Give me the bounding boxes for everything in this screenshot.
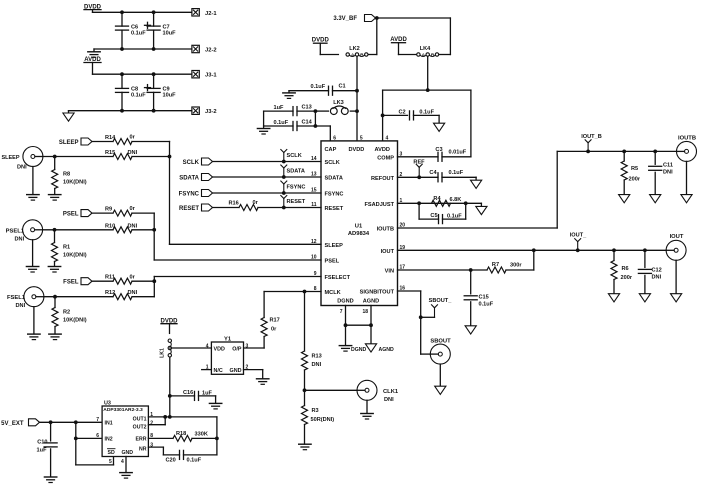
svg-text:C11: C11 — [663, 163, 673, 169]
ground triangle (C15) — [465, 326, 476, 334]
resistor R11 0r — [92, 274, 156, 284]
net tag SDATA input — [179, 174, 212, 182]
svg-text:0r: 0r — [130, 274, 136, 280]
wire RESET right — [258, 206, 321, 210]
svg-text:6: 6 — [96, 433, 99, 439]
ground triangle (C4) — [471, 180, 482, 188]
resistor R16 0r — [229, 200, 259, 210]
wire LK1 middle to Y1 VDD — [169, 347, 171, 349]
test point REF — [413, 159, 425, 179]
svg-text:1uF: 1uF — [37, 447, 48, 453]
svg-text:LK4: LK4 — [420, 46, 431, 52]
svg-text:R15: R15 — [105, 150, 115, 156]
pin 14 SCLK — [311, 156, 340, 166]
resistor R6 200r (IOUT load) — [611, 250, 633, 293]
net tag FSEL input — [63, 278, 92, 286]
capacitor C8 0.1uF — [116, 74, 147, 111]
ground triangle (R6) — [608, 294, 619, 302]
pin 9 FSELECT — [314, 271, 351, 281]
svg-text:DNI: DNI — [17, 165, 27, 171]
svg-text:2: 2 — [150, 420, 153, 426]
svg-text:C14: C14 — [302, 120, 313, 126]
wire Y1 N/C pin 1 stub — [202, 369, 212, 371]
svg-text:SDATA: SDATA — [287, 169, 305, 175]
wire SIGNBITOUT — [398, 291, 431, 354]
svg-text:GND: GND — [122, 450, 134, 456]
svg-text:FSEL1: FSEL1 — [7, 295, 26, 301]
svg-text:0.1uF: 0.1uF — [274, 120, 289, 126]
connector J2-1 — [192, 9, 217, 17]
svg-text:0.1uF: 0.1uF — [187, 457, 202, 463]
wire J2-2 rail — [94, 47, 192, 51]
ground (CLK1 BNC) — [361, 400, 373, 419]
svg-text:ADP3301AR2-3.3: ADP3301AR2-3.3 — [103, 407, 143, 413]
capacitor C16 1uF — [170, 390, 216, 403]
jumper LK4 — [417, 46, 439, 58]
svg-text:DVDD: DVDD — [349, 147, 365, 153]
svg-text:R12: R12 — [105, 290, 115, 296]
svg-text:3.3V_BF: 3.3V_BF — [333, 16, 357, 22]
pin 13 SDATA — [311, 172, 343, 182]
svg-text:IN2: IN2 — [105, 437, 113, 443]
net tag 5V_EXT — [1, 419, 39, 427]
svg-text:FSADJUST: FSADJUST — [364, 202, 394, 208]
pin 18 AGND label — [362, 298, 379, 315]
svg-text:10uF: 10uF — [163, 30, 177, 36]
svg-text:R9: R9 — [105, 207, 112, 213]
net label AVDD (J3 rail) — [84, 57, 101, 74]
ground triangle (C12) — [639, 294, 650, 302]
wire SLEEP bus to pin 12 — [170, 142, 322, 245]
svg-text:C12: C12 — [652, 268, 662, 274]
connector PSEL1 BNC — [6, 220, 43, 243]
svg-text:PSEL: PSEL — [325, 259, 340, 265]
wire feedback vertical — [216, 417, 218, 455]
connector IOUT BNC — [666, 234, 686, 260]
wire CAP pin 6 — [329, 126, 331, 141]
svg-text:AGND: AGND — [363, 298, 379, 304]
wire IOUT — [398, 248, 667, 252]
resistor R9 0r — [92, 206, 154, 216]
svg-text:IOUT_B: IOUT_B — [581, 134, 602, 140]
capacitor C11 DNI — [649, 151, 673, 194]
svg-text:MCLK: MCLK — [325, 290, 341, 296]
svg-text:0.1uF: 0.1uF — [449, 170, 464, 176]
ground (C10) — [44, 477, 56, 483]
pin 17 VIN — [385, 265, 406, 275]
svg-text:IOUTB: IOUTB — [678, 135, 696, 141]
resistor R13 DNI — [302, 292, 322, 393]
pin 12 SLEEP — [311, 239, 343, 249]
wire SD feed — [76, 438, 114, 465]
svg-text:6: 6 — [333, 135, 336, 141]
ground (C13/C14) — [257, 126, 269, 134]
pin 8 MCLK — [314, 286, 341, 296]
ground (U3) — [120, 473, 132, 479]
connector J2-2 — [192, 45, 217, 53]
wire U3 GND pin 4 — [125, 457, 127, 473]
svg-text:OUT2: OUT2 — [133, 424, 147, 430]
wire J2-1 rail — [93, 11, 193, 13]
svg-text:COMP: COMP — [377, 155, 394, 161]
svg-text:DGND: DGND — [337, 298, 353, 304]
svg-text:330K: 330K — [195, 431, 208, 437]
ground (PSEL1 BNC) — [26, 240, 38, 272]
capacitor C13 1uF — [264, 105, 318, 116]
pin 7 DGND label — [337, 298, 353, 315]
svg-text:IOUT_: IOUT_ — [570, 233, 587, 239]
capacitor C14 0.1uF — [264, 111, 331, 130]
resistor R7 300r — [487, 250, 534, 273]
svg-text:R2: R2 — [63, 310, 70, 316]
svg-text:SBOUT: SBOUT — [430, 339, 451, 345]
svg-text:7: 7 — [96, 417, 99, 423]
svg-text:Y1: Y1 — [224, 337, 232, 343]
svg-text:C5: C5 — [430, 213, 437, 219]
svg-text:4: 4 — [121, 459, 124, 465]
ground triangle (J3) — [63, 111, 74, 122]
svg-text:J2-2: J2-2 — [205, 48, 217, 54]
wire FSEL bus to pin 9 — [154, 277, 321, 297]
connector SBOUT BNC — [430, 339, 451, 365]
wire LK4 to AVDD node — [426, 57, 430, 92]
wire AGND pin 18 — [369, 306, 373, 328]
svg-text:DNI: DNI — [652, 275, 662, 281]
resistor R12 DNI — [105, 290, 154, 300]
wire FSADJUST — [398, 201, 482, 205]
svg-text:R16: R16 — [229, 201, 239, 207]
svg-text:VIN: VIN — [385, 269, 394, 275]
ground triangle (C2) — [434, 123, 445, 131]
wire Y1 VDD pin 4 — [170, 347, 211, 349]
svg-text:0.1uF: 0.1uF — [131, 30, 146, 36]
svg-text:B: B — [431, 52, 435, 58]
wire J3-2 rail — [69, 109, 193, 113]
pin 2 REFOUT — [371, 172, 403, 182]
test point SCLK — [281, 150, 302, 162]
net tag SCLK input — [183, 158, 213, 166]
ground triangle (R5) — [619, 195, 630, 203]
ground triangle (IOUTB BNC) — [681, 161, 692, 202]
svg-text:RESET: RESET — [179, 206, 199, 212]
svg-text:DNI: DNI — [16, 303, 26, 309]
capacitor C7 10uF (polarized) — [145, 12, 177, 49]
svg-text:R18: R18 — [176, 431, 186, 437]
wire SLEEP BNC to R15 — [43, 155, 113, 159]
ground (FSEL1 BNC) — [28, 307, 40, 340]
svg-text:0r: 0r — [130, 135, 136, 141]
wire OUT1 row — [148, 415, 217, 419]
svg-text:R5: R5 — [631, 166, 638, 172]
pin 19 IOUT — [381, 245, 406, 255]
jumper LK3 — [315, 100, 359, 115]
wire NR to C20 — [148, 447, 179, 455]
wire LK1 bottom to OUT1 node — [168, 357, 172, 418]
test point IOUT_B — [581, 134, 602, 152]
svg-text:IOUT: IOUT — [670, 234, 684, 240]
svg-text:O/P: O/P — [232, 347, 242, 353]
ground triangle (C11) — [650, 195, 661, 203]
wire 3.3V_BF rail — [375, 16, 451, 54]
jumper LK2 — [346, 46, 368, 58]
svg-text:J3-2: J3-2 — [205, 109, 217, 115]
ground triangle (FSADJUST) — [476, 203, 487, 214]
ground DGND — [339, 325, 366, 353]
svg-text:N/C: N/C — [214, 368, 223, 374]
resistor R8 10K DNI — [52, 157, 87, 195]
svg-text:C4: C4 — [429, 170, 437, 176]
wire 5V_EXT to IN1 — [40, 420, 103, 424]
svg-text:0r: 0r — [130, 206, 136, 212]
svg-text:DNI: DNI — [312, 362, 322, 368]
svg-text:0.1uF: 0.1uF — [131, 93, 146, 99]
pin 1 FSADJUST — [364, 198, 402, 208]
ground (R1) — [48, 267, 60, 273]
svg-text:VDD: VDD — [214, 347, 225, 353]
svg-text:10K(DNI): 10K(DNI) — [63, 253, 87, 259]
wire SDATA — [213, 175, 322, 179]
net label AVDD (LK4) — [390, 37, 416, 54]
svg-text:DNI: DNI — [384, 397, 394, 403]
pin 4 AVDD label — [375, 135, 390, 153]
resistor R10 DNI — [105, 223, 156, 233]
svg-text:5: 5 — [360, 135, 363, 141]
wire IOUTB — [398, 150, 677, 229]
svg-text:R13: R13 — [312, 354, 322, 360]
net tag RESET input — [179, 204, 213, 212]
svg-text:J2-1: J2-1 — [205, 11, 217, 17]
svg-text:ERR: ERR — [136, 437, 147, 443]
svg-text:CLK1: CLK1 — [383, 389, 399, 395]
svg-text:J3-1: J3-1 — [205, 73, 217, 79]
capacitor C10 1uF — [37, 422, 58, 477]
svg-text:0.1uF: 0.1uF — [447, 214, 462, 220]
node C6/rail-top junction — [120, 10, 155, 14]
ground (R8) — [49, 195, 61, 201]
svg-text:SBOUT_: SBOUT_ — [429, 298, 453, 304]
svg-text:LK1: LK1 — [160, 348, 166, 358]
resistor R3 50R DNI — [302, 390, 335, 444]
svg-text:10uF: 10uF — [163, 93, 177, 99]
wire OUT2 join — [148, 417, 165, 425]
svg-text:SCLK: SCLK — [287, 153, 302, 159]
svg-text:C15: C15 — [479, 294, 489, 300]
resistor R17 0r — [261, 292, 280, 349]
svg-text:4: 4 — [386, 135, 389, 141]
pin 10 PSEL — [311, 255, 340, 265]
svg-text:IOUT: IOUT — [381, 249, 395, 255]
svg-text:PSEL1: PSEL1 — [6, 228, 25, 234]
wire IN2 feed — [74, 422, 102, 440]
svg-text:B: B — [360, 52, 364, 58]
svg-text:SLEEP: SLEEP — [59, 140, 79, 146]
svg-text:1uF: 1uF — [202, 390, 213, 396]
pin 16 SIGNBITOUT — [360, 286, 406, 296]
capacitor C9 10uF (polarized) — [145, 74, 177, 111]
svg-text:R4: R4 — [433, 196, 441, 202]
svg-text:C20: C20 — [166, 457, 176, 463]
pin 20 IOUTB — [377, 223, 406, 233]
svg-text:REF: REF — [413, 159, 425, 165]
wire DGND-AGND tie — [346, 324, 372, 326]
svg-text:A: A — [422, 52, 426, 58]
svg-text:U3: U3 — [104, 401, 111, 407]
svg-text:0r: 0r — [253, 200, 259, 206]
resistor R15 DNI — [105, 150, 171, 160]
net tag SLEEP input — [59, 138, 92, 146]
ground (Y1) — [257, 379, 269, 385]
capacitor C15 0.1uF — [464, 270, 493, 326]
svg-text:LK2: LK2 — [349, 46, 360, 52]
pin 3 COMP — [377, 151, 402, 161]
wire RESET left — [213, 207, 240, 209]
svg-text:10K(DNI): 10K(DNI) — [63, 180, 87, 186]
svg-text:RESET: RESET — [287, 199, 306, 205]
net tag PSEL input — [63, 210, 92, 218]
pin 11 RESET — [311, 202, 344, 212]
wire PSEL1 BNC to R10 — [43, 228, 113, 232]
capacitor C1 0.1uF — [289, 84, 359, 96]
ground (J2) — [88, 49, 100, 57]
svg-text:PSEL: PSEL — [63, 212, 79, 218]
capacitor C5 0.1uF (parallel R4) — [419, 203, 466, 223]
svg-text:FSYNC: FSYNC — [179, 192, 200, 198]
wire R17 to Y1 O/P pin 3 — [244, 347, 265, 349]
connector CLK1 BNC — [357, 380, 399, 403]
net tag FSYNC input — [179, 190, 213, 198]
jumper LK1 — [160, 339, 172, 358]
svg-text:SIGNBITOUT: SIGNBITOUT — [360, 290, 395, 296]
test point FSYNC — [281, 181, 306, 193]
connector J3-2 — [192, 107, 217, 115]
regulator U3 ADP3301AR2-3.3 — [96, 401, 153, 465]
svg-text:7: 7 — [340, 309, 343, 315]
wire LK4-B to 3.3V_BF — [439, 54, 450, 56]
svg-text:6.8K: 6.8K — [450, 197, 462, 203]
connector FSEL1 BNC — [7, 287, 44, 310]
test point SDATA — [281, 165, 305, 177]
capacitor C4 0.1uF (REFOUT) — [398, 170, 477, 182]
svg-text:DNI: DNI — [128, 150, 138, 156]
pin 15 FSYNC — [311, 188, 344, 198]
test point RESET — [281, 196, 306, 208]
connector IOUTB BNC — [677, 135, 697, 161]
svg-text:FSELECT: FSELECT — [325, 275, 351, 281]
svg-text:NR: NR — [139, 446, 147, 452]
svg-text:SLEEP: SLEEP — [1, 155, 19, 161]
svg-text:18: 18 — [362, 309, 368, 315]
svg-text:SLEEP: SLEEP — [325, 243, 344, 249]
svg-text:3: 3 — [246, 344, 249, 350]
svg-text:IOUTB: IOUTB — [377, 227, 394, 233]
svg-text:0.01uF: 0.01uF — [449, 149, 467, 155]
svg-text:LK3: LK3 — [333, 100, 344, 106]
net label DVDD (LK1) — [160, 318, 178, 333]
capacitor C20 0.1uF — [166, 450, 217, 463]
capacitor C2 0.1uF — [383, 109, 440, 123]
ground triangle (IOUT BNC) — [671, 260, 682, 302]
svg-text:R7: R7 — [492, 262, 499, 268]
svg-text:AVDD: AVDD — [375, 147, 390, 153]
svg-text:R11: R11 — [105, 275, 115, 281]
svg-text:200r: 200r — [621, 275, 633, 281]
net label DVDD (LK2) — [312, 38, 339, 55]
wire SCLK — [213, 160, 322, 164]
wire PSEL bus to pin 10 — [154, 213, 321, 260]
wire FSYNC — [213, 191, 322, 195]
capacitor C3 0.01uF (COMP) — [398, 147, 471, 161]
wire Y1 GND pin 2 — [244, 370, 263, 379]
resistor R1 10K DNI — [52, 230, 87, 266]
wire DGND pin 7 — [344, 306, 348, 328]
svg-text:AGND: AGND — [379, 347, 395, 353]
ground (R2) — [49, 334, 61, 340]
svg-text:C13: C13 — [302, 105, 312, 111]
test point SBOUT_ — [421, 298, 453, 318]
svg-text:GND: GND — [230, 368, 242, 374]
svg-text:DGND: DGND — [351, 347, 367, 353]
ground triangle AGND — [365, 325, 394, 353]
svg-text:DNI: DNI — [663, 170, 673, 176]
svg-text:300r: 300r — [510, 262, 522, 268]
oscillator Y1 — [206, 337, 249, 375]
capacitor C12 DNI — [638, 250, 661, 293]
ground triangle (SBOUT BNC) — [435, 364, 446, 394]
svg-text:R1: R1 — [63, 245, 70, 251]
svg-text:U1: U1 — [355, 223, 363, 229]
svg-text:DNI: DNI — [15, 236, 25, 242]
svg-text:C16: C16 — [183, 390, 193, 396]
svg-text:SDATA: SDATA — [179, 176, 199, 182]
svg-text:IN1: IN1 — [105, 420, 113, 426]
wire VIN — [398, 268, 488, 272]
svg-text:50R(DNI): 50R(DNI) — [311, 417, 335, 423]
svg-text:0.1uF: 0.1uF — [479, 301, 494, 307]
pin 5 DVDD label — [349, 135, 365, 153]
svg-text:FSYNC: FSYNC — [325, 192, 344, 198]
svg-text:AD9834: AD9834 — [348, 231, 370, 237]
wire LK2 to DVDD pin 5 — [356, 57, 358, 141]
test point IOUT_ — [570, 233, 587, 251]
svg-text:C2: C2 — [399, 109, 406, 115]
svg-text:SCLK: SCLK — [183, 160, 200, 166]
svg-text:SDATA: SDATA — [325, 176, 343, 182]
capacitor C6 0.1uF — [116, 12, 147, 49]
svg-text:SCLK: SCLK — [325, 160, 340, 166]
ground (R3) — [299, 444, 311, 450]
connector J3-1 — [192, 71, 217, 79]
ground (SLEEP BNC) — [27, 167, 39, 201]
svg-text:0r: 0r — [271, 327, 277, 333]
svg-text:R6: R6 — [622, 266, 629, 272]
svg-text:R17: R17 — [270, 318, 280, 324]
wire to CLK1 — [305, 389, 358, 391]
wire J3-1 rail — [93, 72, 193, 76]
svg-text:C3: C3 — [435, 147, 442, 153]
net label DVDD (J2 rail) — [84, 4, 102, 12]
svg-text:0.1uF: 0.1uF — [419, 109, 434, 115]
wire FSEL1 BNC to R12 — [44, 295, 113, 299]
svg-text:DNI: DNI — [128, 290, 138, 296]
svg-text:SD: SD — [108, 450, 115, 456]
svg-text:0.1uF: 0.1uF — [311, 84, 326, 90]
svg-text:OUT1: OUT1 — [133, 416, 147, 422]
ground (C1) — [283, 91, 295, 99]
resistor R2 10K DNI — [52, 297, 87, 334]
svg-text:R3: R3 — [312, 408, 319, 414]
svg-text:A: A — [351, 52, 355, 58]
resistor R18 330K (ERR) — [148, 431, 218, 442]
